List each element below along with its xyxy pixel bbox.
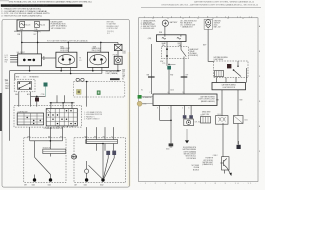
svg-text:DRL: DRL xyxy=(178,43,181,45)
junction dots on bus xyxy=(21,42,102,44)
green connector xyxy=(97,91,101,95)
connector X-box xyxy=(114,44,122,50)
M/T resistor drop xyxy=(50,154,52,157)
combination switch dashed box xyxy=(14,106,82,128)
svg-text:CONTROL UNIT: CONTROL UNIT xyxy=(107,28,119,30)
LH low wire xyxy=(60,67,62,70)
svg-text:G401: G401 xyxy=(32,184,36,186)
A/T drop wire xyxy=(102,144,104,166)
svg-text:OFF: OFF xyxy=(5,81,8,83)
svg-text:R/Y: R/Y xyxy=(186,74,188,76)
svg-text:No.24: No.24 xyxy=(40,24,45,26)
svg-text:R/B: R/B xyxy=(122,71,124,73)
teal connector right page xyxy=(167,66,171,70)
relay right wire xyxy=(246,68,248,83)
indicator box xyxy=(184,119,194,126)
yellow connector xyxy=(77,90,82,95)
battery xyxy=(162,20,168,26)
ignition wire down xyxy=(208,29,213,61)
svg-text:E: E xyxy=(259,126,260,128)
svg-text:BL: BL xyxy=(122,78,124,80)
svg-text:ON(1): ON(1) xyxy=(5,83,9,85)
note rows above bus right xyxy=(107,31,114,35)
svg-text:R/B: R/B xyxy=(48,136,50,138)
wire below teal xyxy=(168,70,170,95)
svg-text:GR: GR xyxy=(122,77,124,79)
svg-text:W/B: W/B xyxy=(159,32,162,34)
svg-text:(IG2): (IG2) xyxy=(214,24,218,26)
headlight RH label xyxy=(92,47,102,52)
A/T wires to navy xyxy=(97,144,114,151)
grid feed wires xyxy=(51,103,72,109)
unit out wire 2 xyxy=(170,106,172,142)
pin labels above unit xyxy=(150,89,185,94)
wire x64.5 xyxy=(64,95,66,103)
svg-text:C416: C416 xyxy=(170,89,174,91)
DRL relay label xyxy=(214,56,229,61)
zone ticks top xyxy=(153,18,243,19)
wire comb out 6 xyxy=(104,127,106,139)
wire comb out 7 xyxy=(113,127,115,139)
left page black edge tab xyxy=(0,93,2,131)
svg-text:LIGHT RESISTOR: LIGHT RESISTOR xyxy=(222,87,235,89)
module note rows xyxy=(202,112,211,116)
svg-text:14P CONNECTOR: 14P CONNECTOR xyxy=(51,28,67,30)
A/T wire to ground xyxy=(102,165,104,179)
control unit box xyxy=(153,94,217,106)
wire comb out 1 xyxy=(29,127,31,141)
A/T slant wire 2 xyxy=(104,158,114,179)
wire fuse2 down xyxy=(37,31,39,54)
svg-text:FIG. 23 HEADLIGHT / DAYTIME R: FIG. 23 HEADLIGHT / DAYTIME RUNNING LIGH… xyxy=(3,4,49,7)
svg-text:E2: E2 xyxy=(141,89,143,91)
JB out wire 1 xyxy=(166,42,168,47)
bus junction dots xyxy=(29,70,119,74)
teal connector node xyxy=(162,63,176,65)
svg-text:UNIT FOR DRL: UNIT FOR DRL xyxy=(203,160,213,162)
scan tint strip xyxy=(128,52,131,186)
DRL note text xyxy=(106,70,121,75)
A/T ground labels xyxy=(84,184,104,186)
wire labels above MT box xyxy=(28,136,114,138)
svg-text:W 2: W 2 xyxy=(107,33,110,35)
text between lamps xyxy=(79,58,82,62)
note text block B xyxy=(192,165,199,171)
A/T switch dashed box xyxy=(74,138,126,183)
grid feed bus xyxy=(50,102,75,104)
notes list right page xyxy=(141,19,156,30)
wire cluster down 1 xyxy=(222,123,224,157)
wire fuse1 down xyxy=(21,31,23,54)
fuse box label xyxy=(51,20,67,30)
A/T slant wire 1 xyxy=(104,158,109,178)
svg-text:5 : GROUND G401: 5 : GROUND G401 xyxy=(141,28,155,30)
mid row labels xyxy=(15,93,44,96)
svg-text:GR/BL GR/W: GR/BL GR/W xyxy=(202,112,211,114)
note text block A xyxy=(183,147,197,160)
svg-text:B: B xyxy=(259,51,260,53)
bus main wire xyxy=(22,41,118,43)
svg-text:BK/Y: BK/Y xyxy=(203,45,206,47)
khaki connector xyxy=(137,101,153,106)
connector oval D2 xyxy=(81,78,84,81)
connector oval D1 xyxy=(76,78,79,81)
unit out join xyxy=(160,119,172,121)
svg-text:R/Y: R/Y xyxy=(103,136,105,138)
headlight relay xyxy=(161,47,188,59)
svg-text:HI 2: HI 2 xyxy=(5,57,8,59)
svg-text:BATTERY: BATTERY xyxy=(170,21,179,24)
left drop wire xyxy=(9,71,11,141)
dimmer relay box xyxy=(18,54,42,66)
A/T resistor xyxy=(86,140,118,144)
A/T ground dot 2 xyxy=(101,178,104,181)
grid feed dots xyxy=(50,102,73,104)
passing switch dashed box xyxy=(14,79,35,92)
svg-text:C416 2: C416 2 xyxy=(213,155,218,157)
relay left stubs xyxy=(10,56,18,62)
A/T switch arm xyxy=(89,165,103,179)
M/T resistor xyxy=(43,149,66,153)
JB out labels xyxy=(162,42,181,47)
svg-text:C716: C716 xyxy=(41,94,45,96)
transistor left text xyxy=(202,158,213,167)
navy connector R2 xyxy=(189,115,193,118)
dark red connector xyxy=(227,64,231,68)
svg-text:R/B: R/B xyxy=(147,74,149,76)
wire resistor down 1 xyxy=(221,90,223,116)
wire cluster down 2 xyxy=(237,124,239,145)
relay stub labels xyxy=(5,55,8,63)
fuse box xyxy=(17,20,49,31)
bus drop to connector box xyxy=(117,42,119,44)
svg-text:C416: C416 xyxy=(217,114,221,116)
arrow down xyxy=(185,129,189,143)
bus3 wire xyxy=(15,73,102,75)
dot on box D xyxy=(86,81,88,83)
unit out wire 3 xyxy=(184,106,186,116)
headlight LH label xyxy=(60,47,70,52)
wire comb out 3 xyxy=(62,127,64,141)
note text above connector xyxy=(107,22,119,30)
wire code labels xyxy=(147,74,189,76)
svg-text:RUNNING LIGHT: RUNNING LIGHT xyxy=(107,26,119,28)
transistor bottom stub xyxy=(225,168,232,177)
svg-text:E 4: E 4 xyxy=(5,62,7,64)
svg-text:NOT USED: NOT USED xyxy=(192,165,199,167)
wire comb out 5 xyxy=(96,127,98,139)
RH high wire xyxy=(101,67,103,73)
battery wire xyxy=(164,26,166,35)
wire drop to LH lamp xyxy=(67,42,69,52)
wire drop to RH lamp xyxy=(100,42,102,52)
svg-text:LO 1: LO 1 xyxy=(5,55,8,57)
M/T switch wire xyxy=(34,141,36,157)
relay out wire xyxy=(166,59,168,66)
grid bottom stubs xyxy=(58,126,72,127)
node link wire xyxy=(31,95,46,97)
title bar (black) xyxy=(1,4,83,7)
DRL relay coil xyxy=(215,71,224,77)
svg-text:G402: G402 xyxy=(48,184,52,186)
switch side wire down xyxy=(183,59,185,94)
svg-text:SEE DRL CIRCUIT: SEE DRL CIRCUIT xyxy=(184,154,196,156)
svg-text:IF EQUIPPED WITH: IF EQUIPPED WITH xyxy=(183,147,196,149)
svg-text:R/B: R/B xyxy=(94,136,96,138)
svg-text:12: 12 xyxy=(183,92,185,94)
wires relay to resistor xyxy=(217,78,237,83)
svg-text:COMBINATION SWITCH: COMBINATION SWITCH xyxy=(44,127,64,130)
svg-text:R/Y: R/Y xyxy=(122,73,124,75)
svg-text:G201: G201 xyxy=(244,119,248,121)
comb switch right note xyxy=(84,111,102,121)
M/T contact stubs xyxy=(35,175,51,179)
scan edge smudge top left xyxy=(0,0,9,1)
node dot xyxy=(36,96,38,98)
DRL relay box xyxy=(214,61,249,78)
lighting switch table xyxy=(17,113,43,125)
M/T ground dot 1 xyxy=(33,178,36,181)
svg-text:1994 HONDA CIVIC DEL SOL - D: 1994 HONDA CIVIC DEL SOL - DAYTIME RUNNI… xyxy=(161,4,258,7)
M/T link dot xyxy=(50,140,52,142)
relay side labels xyxy=(43,55,45,61)
svg-text:. 1 . 2 . 3 . 4 . 5 . 6 . 7 .: . 1 . 2 . 3 . 4 . 5 . 6 . 7 . 8 . 9 . 10… xyxy=(140,16,258,18)
long left wire xyxy=(150,44,152,94)
LEFT PAGE xyxy=(0,0,131,187)
svg-text:POWER TR: POWER TR xyxy=(206,158,213,160)
svg-text:4 : SEE SECTION 23: 4 : SEE SECTION 23 xyxy=(141,26,156,28)
right page frame xyxy=(139,18,259,182)
zone letters right xyxy=(259,25,261,153)
M/T switch dashed box xyxy=(24,138,66,183)
svg-text:WITH DRL :: WITH DRL : xyxy=(107,22,116,24)
navy connector R1 xyxy=(183,115,187,118)
svg-text:R/W: R/W xyxy=(16,77,20,79)
wire side lamp down xyxy=(117,64,119,71)
svg-text:No.23: No.23 xyxy=(26,24,31,26)
svg-text:C501: C501 xyxy=(122,51,126,53)
svg-text:4 : SWITCH IN LOW SIDE (USA MO: 4 : SWITCH IN LOW SIDE (USA MODEL) xyxy=(1,14,42,17)
dashed connector box D xyxy=(74,82,125,98)
svg-text:C/U : CONTROL UNIT: C/U : CONTROL UNIT xyxy=(180,25,195,27)
svg-text:IGNITION: IGNITION xyxy=(214,20,221,22)
fuse F2 xyxy=(34,22,45,31)
wire x18.8 xyxy=(18,92,20,107)
ignition switch label xyxy=(214,20,221,28)
unit pin labels xyxy=(157,107,190,109)
M/T ground labels xyxy=(32,184,52,186)
M/T switch arm xyxy=(35,157,51,174)
svg-text:MODELS: MODELS xyxy=(193,169,199,171)
A/T bus wire xyxy=(87,143,103,145)
svg-text:RH (LO/HI): RH (LO/HI) xyxy=(92,50,101,52)
svg-text:HEAD(L): HEAD(L) xyxy=(14,30,21,33)
unit out wire 1 xyxy=(159,106,161,121)
svg-text:ON(2): ON(2) xyxy=(5,86,9,88)
headlight relay label xyxy=(190,48,199,57)
svg-text:1994 HONDA CIVIC DEL SOL SYST: 1994 HONDA CIVIC DEL SOL SYSTEM WIRING D… xyxy=(9,1,93,4)
M/T ground dot 2 xyxy=(49,178,52,181)
junction block xyxy=(157,35,187,42)
svg-text:G402: G402 xyxy=(100,184,104,186)
A/T bus dot xyxy=(102,143,104,145)
red connector xyxy=(35,96,39,106)
headlight RH xyxy=(88,52,109,67)
svg-text:SECTION 23-12: SECTION 23-12 xyxy=(186,156,197,158)
svg-text:DRL IND: DRL IND xyxy=(195,122,201,124)
DRL resistor box xyxy=(212,83,246,90)
transistor box xyxy=(220,157,229,170)
LH high wire xyxy=(70,67,72,73)
svg-text:G401: G401 xyxy=(166,149,170,151)
JB out wire 2 xyxy=(180,42,182,47)
svg-text:FUSE BOX): FUSE BOX) xyxy=(190,55,199,57)
svg-text:(J/B): (J/B) xyxy=(148,38,152,40)
connector b2 xyxy=(216,114,229,124)
svg-text:F: F xyxy=(259,151,260,153)
unit out wire 4 xyxy=(190,106,192,116)
wire x57 xyxy=(56,95,58,103)
wire connector box to lamp xyxy=(117,51,119,57)
svg-text:W TO DAYTIME RUNNING LIGHT R: W TO DAYTIME RUNNING LIGHT RELAY (CANADA… xyxy=(47,39,88,42)
DRL relay arm xyxy=(233,61,241,77)
svg-text:3 : WITH DRL UNIT: 3 : WITH DRL UNIT xyxy=(141,24,155,26)
connector b1 xyxy=(200,115,210,123)
green connector right page xyxy=(138,95,153,99)
svg-text:SWITCH: SWITCH xyxy=(214,22,220,24)
wire through box D xyxy=(86,82,88,107)
M/T top link wire xyxy=(30,140,63,142)
left page frame xyxy=(2,20,129,188)
navy connector 2 xyxy=(112,151,116,158)
svg-text:J/B : JUNCTION BLOCK: J/B : JUNCTION BLOCK xyxy=(180,21,197,23)
dark label bar xyxy=(110,78,120,80)
fuse F1 xyxy=(20,22,31,31)
A/T lamp xyxy=(85,161,89,179)
wire passing to node xyxy=(30,92,32,107)
join dot xyxy=(170,120,172,122)
svg-text:LH (LO/HI): LH (LO/HI) xyxy=(60,50,69,52)
contact grid table xyxy=(46,109,77,126)
header rule xyxy=(141,6,261,8)
svg-text:W/B: W/B xyxy=(122,75,125,77)
svg-text:C101 (10): C101 (10) xyxy=(107,31,114,33)
wire comb out 4 xyxy=(86,127,88,143)
wire comb out 2 xyxy=(49,127,51,149)
wire resistor down 2 xyxy=(237,90,239,116)
relay output wire xyxy=(29,66,31,71)
ignition switch xyxy=(204,19,212,29)
svg-text:G401: G401 xyxy=(84,184,88,186)
ground symbol 1 xyxy=(169,141,174,147)
svg-text:C417: C417 xyxy=(200,115,204,117)
headlight LH xyxy=(56,52,77,67)
svg-text:M/T: M/T xyxy=(24,185,27,187)
passing switch labels xyxy=(5,81,9,91)
legend text block xyxy=(180,21,197,29)
resistor wire labels xyxy=(216,100,243,102)
side marker lamp xyxy=(114,56,122,64)
relay to LH lamp wire xyxy=(41,57,56,59)
teal connector xyxy=(44,83,48,97)
RIGHT PAGE xyxy=(137,1,261,185)
svg-text:C502: C502 xyxy=(122,53,126,55)
bus3 left corner xyxy=(14,74,16,80)
navy connector 1 xyxy=(106,151,110,158)
bus2 wire xyxy=(10,70,122,72)
inline connector left xyxy=(148,77,155,78)
svg-text:C725: C725 xyxy=(162,63,166,65)
svg-text:LIGHT CONTROL UNIT: LIGHT CONTROL UNIT xyxy=(198,99,215,101)
right edge note mid xyxy=(122,69,125,80)
row labels under bus3 xyxy=(16,76,39,79)
A/T ground dot 1 xyxy=(85,178,88,181)
ground symbol 2 xyxy=(237,141,241,149)
svg-text:R/Y: R/Y xyxy=(60,136,62,138)
connector b3 xyxy=(234,116,248,124)
svg-text:DAYTIME RUNNING LIGHT SYSTEM: DAYTIME RUNNING LIGHT SYSTEM - WIRING DI… xyxy=(194,1,255,4)
RH low wire xyxy=(92,67,94,70)
inline connector right xyxy=(181,77,188,78)
inter-box oval connector xyxy=(71,155,76,159)
right edge note upper xyxy=(122,51,126,55)
